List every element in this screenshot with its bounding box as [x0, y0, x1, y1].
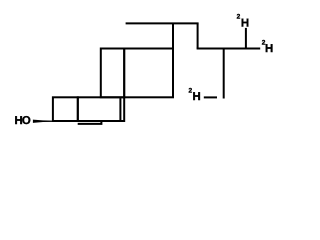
ring A — [53, 97, 78, 121]
side chain horizontal — [197, 48, 261, 50]
double bond outer line (ring B bottom) — [78, 121, 102, 124]
svg-text:H: H — [241, 17, 249, 29]
wedge bond HO-C3 — [33, 120, 54, 123]
svg-text:H: H — [265, 43, 273, 55]
double bond inner line (ring B right edge) — [119, 98, 121, 121]
vertical C20-C22 — [197, 23, 199, 48]
bond to middle 2H — [204, 96, 217, 98]
ring D — [124, 49, 173, 98]
vertical C24 branch — [223, 49, 225, 99]
ring B — [78, 97, 124, 121]
svg-text:O: O — [22, 115, 31, 127]
svg-text:H: H — [193, 91, 201, 103]
vertical bond to top 2H — [245, 28, 247, 49]
ring C — [101, 49, 124, 98]
vertical C17-C20 — [172, 23, 174, 48]
top methyl/chain line — [126, 22, 199, 24]
